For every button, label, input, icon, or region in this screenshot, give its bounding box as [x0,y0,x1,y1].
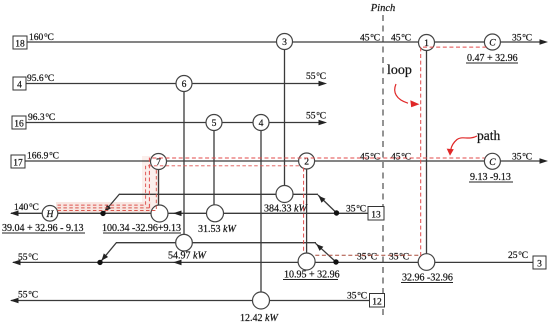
pinch line [382,15,384,315]
svg-text:5: 5 [212,118,217,129]
stream 4 labels [27,70,326,84]
stream 3 box [533,256,546,270]
match 4 wire [260,131,262,292]
red path line along stream 17 [149,158,484,208]
svg-text:31.53 kW: 31.53 kW [198,224,237,235]
stream 18 labels [29,31,532,43]
stream 3 wire (cold, y262.4) [12,260,533,266]
svg-text:C: C [489,38,496,49]
exchanger 7 bottom [151,205,168,222]
cooler C stream 18 [484,34,500,50]
cooler C17 duty label [469,172,513,183]
match 3 wire [284,50,286,186]
exchanger 5 bottom [207,205,224,222]
stream 12 wire (cold, y300.5) [10,298,370,304]
svg-text:path: path [477,128,500,143]
svg-text:140oC: 140oC [14,201,39,213]
red loop line lower leg (H to match 7) [58,170,157,211]
exchanger 7 top [151,154,167,170]
stream 4 box [13,77,26,91]
pink halo near heater [56,156,160,213]
stream 13 wire (cold, y213) [10,211,368,217]
stream 3 labels [18,249,528,263]
stream 17 wire [25,158,548,164]
red loop line upper leg (H to exchanger 7) [58,166,299,205]
svg-text:32.96 -32.96: 32.96 -32.96 [402,273,453,284]
svg-text:18: 18 [15,40,25,50]
exchanger 1 duty label [401,273,453,284]
svg-text:Pinch: Pinch [370,3,396,14]
match 2 wire [306,169,308,254]
svg-text:95.6oC: 95.6oC [27,72,54,84]
red loop vertical at match 1 [421,47,487,256]
stream 3 branch arrows [102,244,324,261]
stream 3 branch wire (y242.7) [100,243,336,263]
svg-text:H: H [46,209,55,220]
exchanger 4 top [253,115,269,131]
stream 16 labels [28,110,326,123]
exchanger 1 top [419,35,435,51]
exchanger 7 duty label [102,223,181,234]
svg-text:96.3oC: 96.3oC [28,111,55,123]
svg-text:loop: loop [387,63,412,78]
stream 13 labels [14,201,366,214]
svg-text:0.47 + 32.96: 0.47 + 32.96 [467,53,518,64]
red loop horizontal on stream 3 [315,254,419,256]
svg-text:13: 13 [371,210,381,220]
svg-text:54.97 kW: 54.97 kW [168,251,207,262]
stream 18 wire [27,39,548,45]
exchanger 6 duty label [168,251,207,262]
exchanger 3 top [277,34,293,50]
svg-text:16: 16 [14,120,24,130]
exchanger 4 duty label [240,313,279,324]
svg-text:12: 12 [372,297,382,307]
stream 18 box [13,36,27,50]
stream 4 wire [26,81,327,87]
heater H [42,206,58,222]
exchanger 5 duty label [198,224,237,235]
stream 17 labels [27,150,532,163]
svg-text:10.95 + 32.96: 10.95 + 32.96 [284,270,340,281]
svg-text:C: C [489,157,496,168]
match 7 wire [158,170,160,206]
svg-text:100.34 -32.96+9.13: 100.34 -32.96+9.13 [102,223,181,234]
svg-text:9.13 -9.13: 9.13 -9.13 [470,172,511,183]
stream 13 branch arrows [105,196,326,212]
stream 12 labels [18,289,367,302]
exchanger 5 top [206,115,222,131]
match 5 wire [213,131,215,205]
svg-text:6: 6 [182,79,187,90]
svg-text:384.33 kW: 384.33 kW [264,204,308,215]
cooler C stream 17 [484,153,500,169]
exchanger 2 top [299,153,315,169]
svg-text:7: 7 [156,157,161,168]
svg-text:4: 4 [17,81,22,91]
svg-text:3: 3 [282,37,287,48]
red path line H leg [58,207,150,209]
stream 12 box [370,294,385,308]
svg-text:166.9oC: 166.9oC [27,150,59,162]
cooler C18 duty label [466,53,518,64]
match 6 wire [183,92,185,235]
exchanger 2 bottom [298,253,315,270]
svg-text:39.04 + 32.96 - 9.13: 39.04 + 32.96 - 9.13 [2,223,83,234]
red loop vertical at match 2 [303,168,305,254]
exchanger 6 bottom [176,234,193,251]
svg-text:160oC: 160oC [29,31,54,43]
pinch label [370,3,396,14]
exchanger 6 top [176,76,192,92]
stream 13 box [368,207,384,221]
stream 3 junction nodes [97,259,338,265]
stream 16 wire [26,120,327,126]
stream 16 box [12,116,26,130]
stream 13 junction nodes [100,210,339,216]
svg-text:3: 3 [537,260,542,270]
exchanger 2 duty label [283,270,340,281]
stream 17 box [11,155,25,169]
path annotation [447,128,501,156]
svg-text:4: 4 [259,118,264,129]
svg-text:17: 17 [13,159,23,169]
loop annotation [387,63,420,107]
heater duty label [2,223,85,234]
exchanger 3 bottom [276,186,293,203]
match 1 wire [426,51,428,255]
svg-text:12.42 kW: 12.42 kW [240,313,279,324]
stream 13 branch wire (y194) [103,194,337,214]
exchanger 3 duty label [264,204,308,215]
exchanger 1 bottom [418,254,435,271]
exchanger 4 bottom [253,292,270,309]
